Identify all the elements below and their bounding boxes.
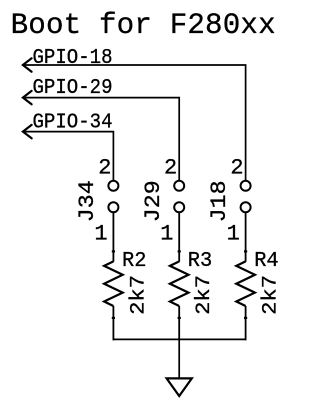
svg-text:2k7: 2k7 xyxy=(127,275,150,315)
svg-text:R4: R4 xyxy=(254,249,279,273)
svg-text:R3: R3 xyxy=(188,249,213,273)
jumper J18 pin 1 pad xyxy=(241,202,251,212)
svg-text:2k7: 2k7 xyxy=(260,275,283,315)
wire R2 to rail xyxy=(112,306,114,340)
svg-text:Boot for F280xx: Boot for F280xx xyxy=(11,9,276,42)
node R2 top pin nub xyxy=(112,250,115,252)
arrow GPIO-18 xyxy=(23,58,32,71)
svg-text:2: 2 xyxy=(164,156,177,181)
jumper J29 pin 1 pad xyxy=(174,202,184,212)
wire J18 pin1 to R4 xyxy=(245,212,247,262)
node R4 top pin nub xyxy=(244,250,247,252)
svg-text:GPIO-29: GPIO-29 xyxy=(33,77,113,100)
svg-text:J29: J29 xyxy=(141,180,166,222)
jumper J34 pin 1 pad xyxy=(108,202,118,212)
svg-text:J34: J34 xyxy=(75,180,100,222)
svg-text:1: 1 xyxy=(160,222,173,247)
svg-text:2: 2 xyxy=(230,156,243,181)
arrow GPIO-29 xyxy=(23,91,32,104)
svg-text:1: 1 xyxy=(94,222,107,247)
node R3 top pin nub xyxy=(178,250,181,252)
wire net GPIO-18 xyxy=(23,65,246,181)
jumper J34 pin 2 pad xyxy=(108,181,118,191)
resistor R3 xyxy=(170,261,189,306)
wire net GPIO-34 xyxy=(23,132,114,181)
jumper J18 pin 2 pad xyxy=(241,181,251,191)
wire rail to ground xyxy=(178,339,180,377)
svg-text:2: 2 xyxy=(98,156,111,181)
svg-text:R2: R2 xyxy=(122,249,147,273)
wire bottom rail xyxy=(113,338,247,340)
resistor R2 xyxy=(104,261,123,306)
wire J29 pin1 to R3 xyxy=(178,212,180,262)
node R4 bottom pin nub xyxy=(244,317,247,319)
svg-text:2k7: 2k7 xyxy=(193,275,216,315)
wire net GPIO-29 xyxy=(23,98,179,181)
svg-text:1: 1 xyxy=(227,222,240,247)
node R3 bottom pin nub xyxy=(178,317,181,319)
wire R3 to rail xyxy=(178,306,180,340)
svg-text:GPIO-18: GPIO-18 xyxy=(33,47,113,70)
wire J34 pin1 to R2 xyxy=(112,212,114,262)
svg-text:GPIO-34: GPIO-34 xyxy=(33,112,113,135)
jumper J29 pin 2 pad xyxy=(174,181,184,191)
svg-text:J18: J18 xyxy=(207,180,232,222)
resistor R4 xyxy=(236,261,255,306)
arrow GPIO-34 xyxy=(23,125,32,138)
node R2 bottom pin nub xyxy=(112,317,115,319)
wire R4 to rail xyxy=(245,306,247,340)
ground xyxy=(167,378,192,396)
